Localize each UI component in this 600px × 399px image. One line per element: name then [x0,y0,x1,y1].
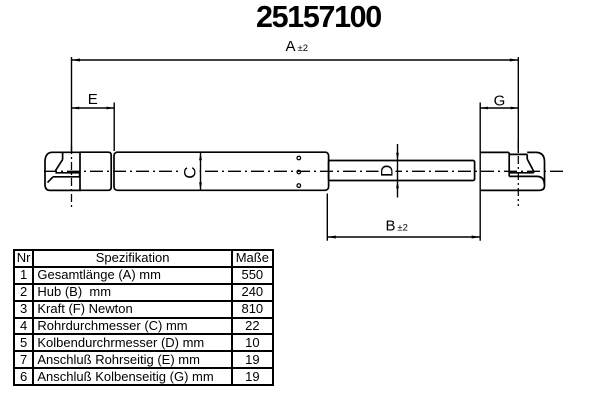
svg-text:G: G [494,93,506,110]
cylinder tube [114,152,329,190]
arrow A left [72,59,81,62]
extension line A right [517,57,519,153]
right block top-right arc [536,152,545,161]
dimension line E [72,107,115,109]
right socket left vertical [508,152,510,176]
arrow B right [472,236,481,239]
center line [44,170,563,172]
dimension line G [480,107,518,109]
right block bottom-right arc [539,186,545,190]
specification table [13,249,274,386]
extension line G-B right block edge [479,103,481,241]
svg-text:D: D [378,165,397,177]
right socket right vertical [526,154,528,159]
right block bottom edge [480,189,538,191]
extension line B left [326,194,328,241]
right block right edge [544,162,546,186]
label D background [379,165,396,178]
arrow B left [327,236,336,239]
arrow G left [480,107,488,110]
dimension line A [72,59,519,61]
left socket base line [55,172,79,174]
right block top edge [480,151,535,153]
right socket notch line [509,176,544,184]
arrow C top [199,153,202,161]
left socket step [79,173,81,177]
arrow D bottom [396,181,399,189]
dimension line B [327,236,480,238]
piston rod [329,161,475,181]
arrow A right [510,59,519,62]
right pivot axis [517,140,519,206]
arrow G right [511,107,519,110]
svg-text:C: C [181,166,200,178]
label C background [181,166,200,178]
left eyelet bracket outline [45,152,80,190]
right socket diagonal [527,159,534,173]
dimension line C [200,153,202,191]
left socket diagonal [55,160,62,171]
arrow D top [396,153,399,161]
extension line E right [113,103,115,152]
svg-text:B: B [386,218,396,235]
dimension line D [397,144,399,198]
arrow E right [107,107,115,110]
left socket vertical [62,152,64,159]
right socket base line [509,172,534,174]
arrow E left [72,107,80,110]
arrow C bottom [199,182,202,190]
svg-text:±2: ±2 [397,223,408,234]
right socket top [509,153,527,155]
svg-text:25157100: 25157100 [256,0,381,34]
tube hole bottom [297,184,301,188]
svg-text:±2: ±2 [298,43,309,54]
tube hole middle [297,170,301,174]
left pivot axis [71,146,73,207]
connector block [80,152,111,190]
svg-text:A: A [286,38,296,55]
svg-text:E: E [88,91,98,108]
left socket chamfer [48,177,54,183]
tube hole top [297,156,301,160]
left socket notch line [53,176,80,178]
extension line A left [71,57,73,152]
